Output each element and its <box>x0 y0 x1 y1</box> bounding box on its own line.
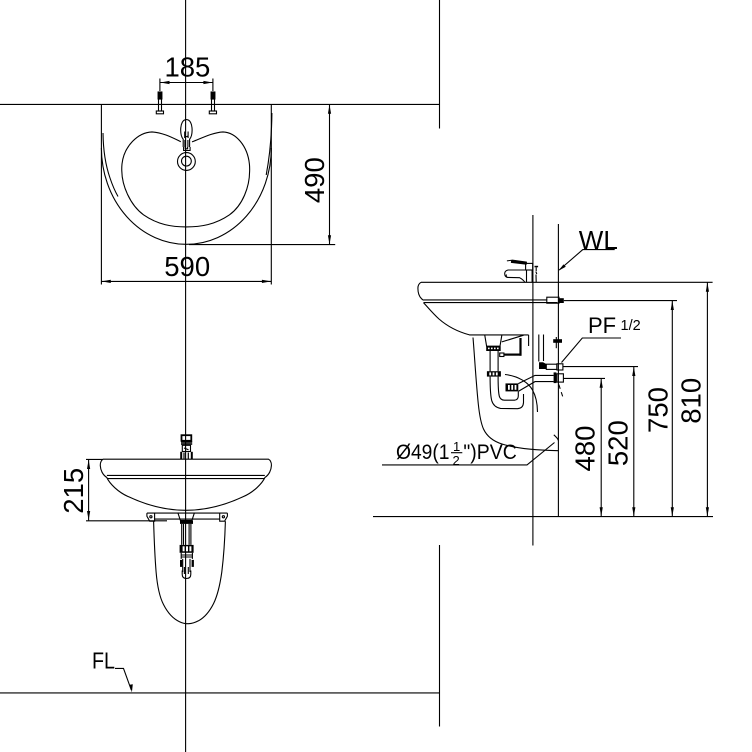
dimension 590: dimension line <box>101 280 271 282</box>
side view: supply tube from faucet <box>539 335 544 362</box>
svg-text:215: 215 <box>58 468 89 514</box>
center line of plan and front views <box>185 0 187 752</box>
side view: rim top line / 810 extension <box>421 281 713 283</box>
plan view: inner rim curve right <box>266 113 272 175</box>
plan view: drain outer circle <box>178 153 196 171</box>
svg-text:590: 590 <box>164 251 210 282</box>
front view: drain nut 2 <box>180 545 194 553</box>
front view: rim lower double line 1 <box>107 474 265 476</box>
side view: dashes below flange <box>559 385 564 400</box>
svg-text:WL: WL <box>579 225 618 255</box>
plan view: right faucet hole bolt <box>209 92 216 114</box>
front view: drain nut 1 <box>180 520 193 524</box>
dimension 215: arrows <box>87 460 90 469</box>
dimension 490: bottom extension line <box>189 244 335 246</box>
side view: extension line for 480 <box>563 377 605 379</box>
svg-text:2: 2 <box>453 453 460 468</box>
PVC label underline and leader <box>382 443 555 465</box>
side view dimension base line <box>373 516 713 518</box>
side view: PF supply stub cross <box>553 337 562 348</box>
side view: angle valve <box>539 362 563 370</box>
svg-text:810: 810 <box>676 378 707 424</box>
dimension 750: line <box>671 301 673 517</box>
side view wall line WL <box>557 224 559 517</box>
front view: faucet <box>181 435 192 459</box>
dimension 215: extension bottom <box>86 520 167 522</box>
front view: mounting bracket <box>147 513 228 521</box>
side view: pop-up rod <box>500 335 524 356</box>
dimension 215: extension top <box>86 458 103 460</box>
side view: extension line for 520 <box>563 366 638 368</box>
side view: pedestal profile <box>473 338 558 451</box>
svg-text:185: 185 <box>164 52 210 83</box>
side view: trap nut <box>487 371 501 376</box>
front view: bracket screw left <box>150 516 152 518</box>
dimension 490: arrows <box>328 105 331 114</box>
front view: bracket screw right <box>222 516 224 518</box>
WL leader <box>559 250 615 270</box>
floor line FL <box>0 692 440 694</box>
dimension 185: arrows <box>160 81 169 84</box>
side view: pedestal wall corner <box>554 435 559 441</box>
front view: drain pipe lower <box>183 559 190 574</box>
svg-text:FL: FL <box>92 647 115 673</box>
plan view: drain inner circle <box>182 156 192 166</box>
wall line (plan view) <box>0 103 440 105</box>
front view: drain pipe bottom cap <box>182 571 191 579</box>
side view faucet center line <box>532 215 534 546</box>
border vertical x=440 upper segment <box>439 0 441 129</box>
plan view: inner rim curve left <box>103 133 118 197</box>
front view: drain pipe upper <box>182 524 191 545</box>
svg-text:")PVC: ")PVC <box>463 441 516 464</box>
dimension 185: extension ticks <box>159 79 161 92</box>
dimension 520: line <box>633 367 635 517</box>
side view: drain tailpiece flange <box>485 335 502 346</box>
side view: trap arm to wall <box>518 375 553 391</box>
svg-text:PF: PF <box>588 313 616 338</box>
plan view: inner basin bowl <box>122 132 250 227</box>
svg-text:750: 750 <box>642 387 673 433</box>
side view: rim lower double line 1 <box>424 299 548 301</box>
FL leader line <box>115 668 131 690</box>
side view: wall bolt <box>547 297 570 303</box>
plan view: faucet body <box>181 120 192 147</box>
side view: bowl back vertical <box>528 335 530 346</box>
plan view: outer rim right extension line <box>270 104 272 284</box>
plan view: left faucet hole bolt <box>156 92 163 114</box>
side view: faucet <box>505 260 538 282</box>
side view: trap arm nut <box>506 383 519 391</box>
side view: bowl underside <box>424 303 529 335</box>
front view: pedestal <box>154 521 226 624</box>
side view: rim lower double line 2 <box>424 302 558 304</box>
side view: rim nose <box>418 282 424 300</box>
svg-text:1/2: 1/2 <box>621 318 641 334</box>
plan view: outer rim bottom arc <box>101 148 271 244</box>
front view: basin outline <box>100 459 271 510</box>
svg-text:520: 520 <box>602 420 633 466</box>
dimension 480: line <box>600 378 602 516</box>
svg-text:480: 480 <box>570 426 601 472</box>
side view: trap vertical pipe <box>490 351 498 371</box>
side view: supply hose curve <box>505 375 538 413</box>
side view: wall drain flange <box>554 372 564 383</box>
front view: drain flare <box>178 513 195 521</box>
dimension 490: dimension line <box>329 104 331 244</box>
PF leader <box>562 338 622 363</box>
front view: rim lower double line 2 <box>107 478 264 480</box>
side view: tailpiece nut <box>486 346 501 351</box>
side view: trap elbow <box>490 377 523 409</box>
svg-text:1: 1 <box>453 439 460 454</box>
plan view: outer rim left extension line <box>100 104 102 284</box>
dimension 215: dimension line <box>88 460 90 521</box>
side view: extension line for 750 <box>570 300 677 302</box>
svg-text:490: 490 <box>299 157 330 203</box>
dimension 810: line <box>706 282 708 516</box>
front view: drain collar <box>181 553 192 559</box>
dimension 185: dimension line <box>160 82 212 84</box>
dimension 590: arrows <box>102 280 111 283</box>
svg-text:Ø49(1: Ø49(1 <box>396 441 450 464</box>
front view: drain side tab right <box>192 560 194 567</box>
plan view: faucet spout detail <box>184 132 191 151</box>
border vertical x=440 lower segment <box>439 545 441 727</box>
front view: drain side tab left <box>180 560 182 567</box>
